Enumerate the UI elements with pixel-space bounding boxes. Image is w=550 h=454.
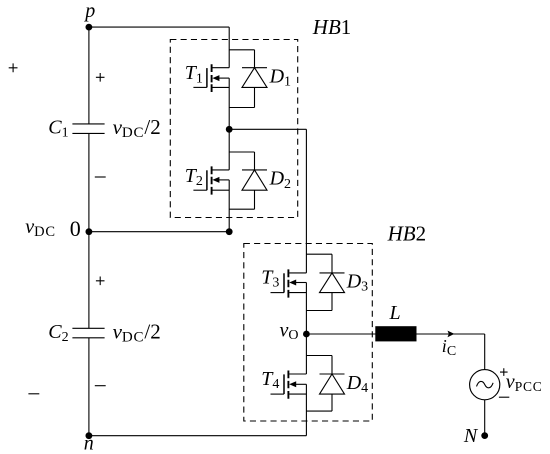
svg-text:vDC: vDC [25, 216, 56, 240]
svg-text:D1: D1 [269, 66, 292, 90]
svg-text:N: N [463, 425, 479, 447]
voltage source v_PCC [470, 370, 500, 400]
wire HB2 leg vertical middle [305, 283, 307, 375]
svg-text:n: n [84, 433, 94, 454]
node N [481, 432, 488, 439]
svg-text:0: 0 [70, 216, 81, 241]
svg-text:T2: T2 [185, 165, 204, 189]
current arrow i_C [448, 331, 455, 338]
wire HB1 midpoint to HB2 top [229, 128, 306, 130]
svg-text:C1: C1 [48, 117, 69, 141]
svg-text:T1: T1 [185, 62, 204, 86]
dashed box HB1 [170, 40, 297, 218]
dashed box HB2 [244, 244, 372, 422]
diode D2 [242, 152, 267, 209]
svg-text:D4: D4 [346, 372, 369, 396]
node 0 right junction [226, 228, 233, 235]
plus sign C1 [96, 73, 105, 82]
svg-text:D3: D3 [346, 271, 369, 295]
capacitor C1 [72, 124, 104, 133]
wire zero line (node 0 to HB1 bottom) [89, 231, 229, 233]
transistor T3 [271, 269, 307, 297]
svg-text:L: L [389, 302, 401, 324]
svg-text:HB2: HB2 [387, 222, 427, 246]
transistor T1 [193, 64, 229, 92]
diode D3 [320, 254, 345, 310]
node v_O junction [303, 331, 310, 338]
wire T2 cell bottom connector [229, 208, 254, 210]
svg-text:C2: C2 [48, 321, 69, 345]
svg-text:p: p [83, 0, 95, 22]
node 0 left [86, 228, 93, 235]
diode D1 [242, 50, 267, 108]
wire HB1 leg vertical middle [228, 78, 230, 170]
wire top rail p to HB1 [89, 26, 229, 28]
svg-text:D2: D2 [269, 168, 292, 192]
svg-text:iC: iC [442, 336, 457, 359]
wire HB2 leg vertical upper [305, 129, 307, 273]
wire HB2 leg vertical lower [305, 384, 307, 435]
capacitor C2 [72, 328, 104, 338]
wire T1 cell top connector [229, 49, 254, 51]
node n [86, 432, 93, 439]
inductor L [375, 326, 416, 341]
wire left rail lower (C2 to n) [88, 338, 90, 436]
wire v_O output to inductor and corner [306, 333, 484, 335]
wire bottom rail n to HB2 [89, 435, 307, 437]
wire T4 cell bottom connector [306, 410, 332, 412]
diode D4 [320, 356, 345, 412]
node HB1 midpoint junction [226, 126, 233, 133]
transistor T2 [193, 166, 229, 194]
plus sign C2 [96, 277, 105, 286]
svg-text:vPCC: vPCC [506, 371, 543, 394]
svg-text:HB1: HB1 [312, 15, 352, 39]
transistor T4 [271, 371, 307, 399]
wire left rail middle (C1 to C2 through node 0) [88, 133, 90, 328]
wire T1 cell bottom connector [229, 107, 254, 109]
plus sign source v_PCC [500, 368, 508, 376]
wire corner down to source [484, 334, 486, 370]
wire HB1 leg vertical upper [228, 27, 230, 68]
wire T3 cell top connector [306, 253, 332, 255]
minus sign source v_PCC [499, 396, 509, 398]
svg-text:vDC/2: vDC/2 [113, 115, 161, 141]
svg-text:T3: T3 [261, 267, 280, 291]
wire HB1 leg vertical lower [228, 180, 230, 232]
svg-text:T4: T4 [261, 368, 280, 392]
node p [86, 24, 93, 31]
wire T4 cell top connector [306, 355, 332, 357]
minus sign outer left [28, 393, 39, 395]
plus sign outer left [9, 63, 18, 72]
wire T2 cell top connector [229, 151, 254, 153]
wire left rail upper (p to C1) [88, 27, 90, 124]
minus sign C1 [95, 176, 106, 178]
wire T3 cell bottom connector [306, 310, 332, 312]
svg-text:vDC/2: vDC/2 [113, 320, 161, 346]
minus sign C2 [95, 385, 106, 387]
svg-text:vO: vO [280, 319, 300, 343]
wire source to node N [484, 400, 486, 436]
